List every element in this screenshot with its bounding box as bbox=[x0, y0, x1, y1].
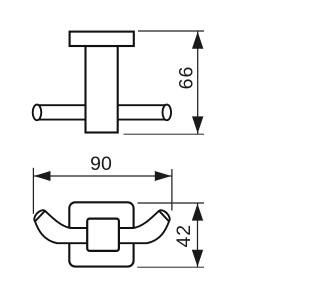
right hook arm bbox=[101, 210, 170, 243]
dimension 90 arrow right bbox=[155, 171, 172, 181]
bar left end cap bbox=[33, 105, 42, 121]
dimension 42 extension line top bbox=[138, 202, 205, 204]
dimension 66 extension line bottom bbox=[124, 133, 205, 135]
dimension 42 arrow down bbox=[192, 250, 203, 267]
dimension 90 line bbox=[34, 175, 172, 177]
wall plate (front view, rounded square) bbox=[69, 202, 133, 266]
left hook arm bbox=[34, 210, 103, 243]
bar bottom line bbox=[37, 119, 167, 121]
left hook cap face line bbox=[35, 211, 45, 222]
dimension 90 arrow left bbox=[34, 171, 51, 181]
bar right end cap bbox=[163, 105, 172, 121]
dimension 66 extension line top bbox=[138, 30, 204, 32]
dimension 66 line bbox=[197, 32, 199, 135]
hook bar (horizontal cylinder) bbox=[37, 105, 167, 119]
dimension 90 extension line left bbox=[32, 168, 34, 214]
right hook cap face line bbox=[159, 211, 169, 222]
wall plate (side view) bbox=[70, 32, 134, 46]
post boss (front view, centre square) bbox=[87, 219, 119, 251]
post (vertical column) bbox=[86, 46, 118, 133]
svg-text:42: 42 bbox=[173, 224, 195, 248]
svg-text:90: 90 bbox=[90, 153, 112, 175]
svg-text:66: 66 bbox=[176, 66, 198, 90]
dimension 66 arrow up bbox=[192, 32, 203, 49]
dimension 42 line bbox=[197, 203, 199, 267]
dimension 42 extension line bottom bbox=[137, 266, 204, 268]
dimension 66 arrow down bbox=[192, 116, 203, 133]
bar top line bbox=[37, 104, 167, 106]
dimension 42 arrow up bbox=[192, 204, 203, 221]
dimension 90 extension line right bbox=[171, 169, 173, 211]
